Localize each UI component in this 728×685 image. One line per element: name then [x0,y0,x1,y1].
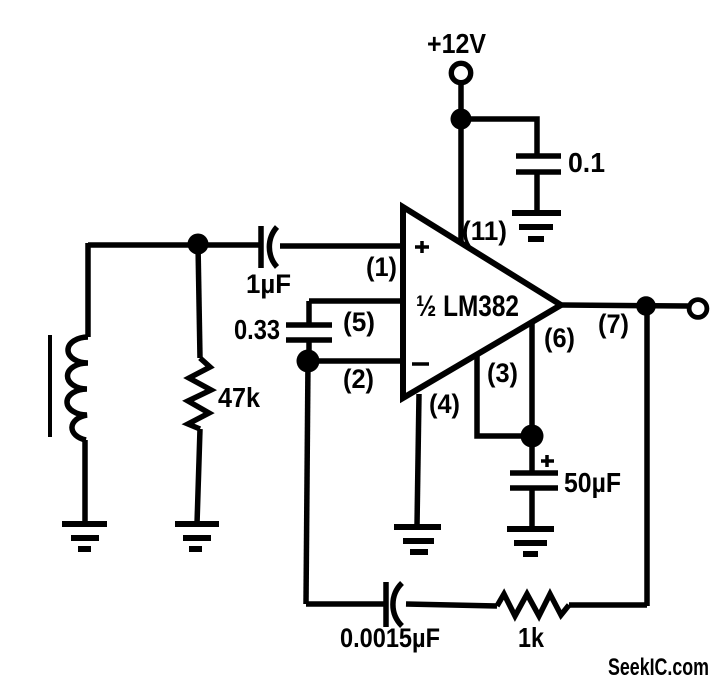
op-amp U1 half LM382 [403,207,561,398]
wire input node down to coil [85,243,91,337]
svg-text:50µF: 50µF [564,467,621,498]
wire from +12V terminal to supply node [458,84,464,121]
svg-text:(5): (5) [343,307,375,337]
node supply junction [451,109,472,130]
wire capacitor 1uF to pin 1 [280,243,403,249]
wire output from apex [561,305,688,306]
label + polarity 50uF [541,455,554,467]
svg-text:(3): (3) [487,358,518,388]
svg-text:(6): (6) [544,323,575,353]
wire input node down to resistor 47k [198,244,200,358]
wire capacitor 50uF to ground [529,488,535,529]
wire pin 3 [477,354,532,436]
ground for pin 4 [394,527,441,552]
svg-text:1µF: 1µF [246,269,291,299]
label - input [412,362,429,366]
svg-text:47k: 47k [218,382,260,413]
ground for coil [62,524,107,549]
svg-text:1k: 1k [518,622,544,653]
svg-text:+12V: +12V [427,28,486,59]
label + input [415,241,429,253]
svg-text:(4): (4) [429,389,460,419]
wire pin 11 from supply node to op-amp top edge [458,119,464,243]
svg-text:(7): (7) [598,309,629,339]
svg-text:(2): (2) [343,364,374,394]
capacitor C 0.1 [516,156,561,172]
svg-text:(11): (11) [462,216,507,246]
wire coil to ground [82,440,88,524]
svg-text:½ LM382: ½ LM382 [416,290,519,323]
node pin3 pin6 junction [521,425,544,448]
svg-text:0.33: 0.33 [234,314,280,345]
wire node to capacitor 50uF [529,436,535,471]
capacitor C 50uF [510,473,558,488]
ground for 47k [175,524,219,549]
wire node 2 down to feedback [306,361,308,604]
wire resistor 47k to ground [197,429,200,524]
wire input node to capacitor 1uF [88,242,261,248]
terminal +12V [451,63,470,82]
svg-text:0.0015µF: 0.0015µF [340,623,440,653]
svg-text:(1): (1) [366,252,397,282]
capacitor C 0.33 [286,325,332,340]
wire pin 5 [309,301,403,326]
capacitor C 0.0015uF [386,582,402,627]
ground for 0.1 [512,213,561,239]
wire feedback middle segment [406,604,497,606]
resistor R 47k [188,358,211,429]
node input junction [188,234,209,255]
antenna bar [48,335,52,437]
svg-text:SeekIC.com: SeekIC.com [608,654,709,681]
wire output node down right side [644,305,650,606]
wire pin 4 to ground [417,394,419,526]
wire capacitor 0.33 to node 2 [306,340,312,355]
svg-text:0.1: 0.1 [568,147,605,178]
wire feedback right segment [569,602,647,608]
wire feedback bottom left segment [306,601,386,607]
node output junction [636,296,656,316]
wire pin 6 [529,322,535,436]
wire capacitor 0.1 to ground [534,172,540,213]
inductor L1 coil [67,337,88,440]
node inverting input junction [297,350,320,373]
wire supply node to capacitor 0.1 [461,119,537,157]
resistor R 1k [497,594,569,616]
capacitor C 1uF [261,226,277,268]
terminal output [689,300,707,318]
wire pin 2 [308,358,403,364]
ground for 50uF [507,529,554,554]
